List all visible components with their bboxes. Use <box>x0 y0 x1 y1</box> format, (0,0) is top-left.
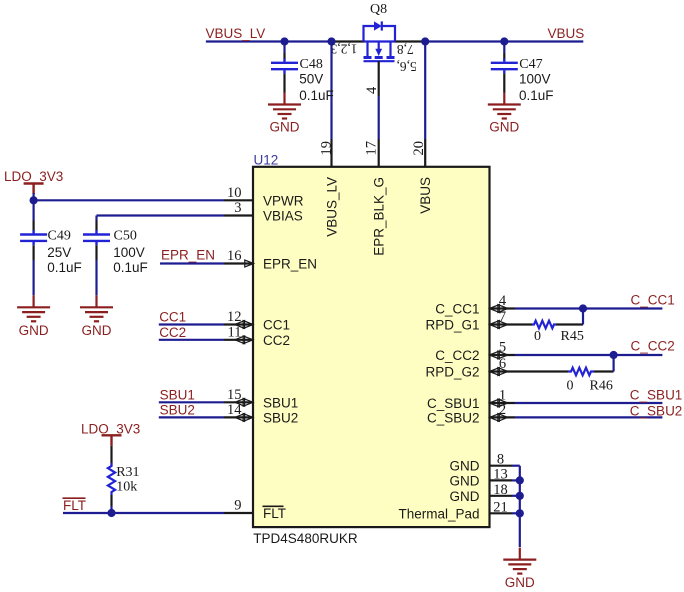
wire VPWR row <box>34 199 224 201</box>
svg-text:8: 8 <box>497 452 504 468</box>
svg-text:VBUS: VBUS <box>418 177 433 214</box>
node junction C47 tap <box>500 37 508 45</box>
power LDO_3V3 top-left <box>24 184 44 195</box>
pin 21 stub GND <box>490 512 513 514</box>
svg-text:15: 15 <box>227 387 242 403</box>
svg-text:GND: GND <box>489 120 519 135</box>
ground GND under C47 <box>488 93 521 119</box>
svg-text:12: 12 <box>227 309 242 325</box>
svg-text:CC2: CC2 <box>159 325 186 340</box>
svg-text:11: 11 <box>228 324 242 340</box>
svg-text:16: 16 <box>227 248 242 264</box>
pin 20 stub VBUS <box>424 139 426 167</box>
pin 14 stub SBU2 <box>224 416 253 418</box>
ground GND under C49 <box>17 295 50 321</box>
wire SBU1 <box>159 401 224 403</box>
svg-text:EPR_BLK_G: EPR_BLK_G <box>372 177 387 256</box>
C49 top pin <box>32 221 34 231</box>
svg-text:C_CC2: C_CC2 <box>435 348 479 363</box>
wire EPR_EN <box>160 262 224 264</box>
svg-text:CC2: CC2 <box>263 333 290 348</box>
pin 10 stub VPWR <box>224 199 253 201</box>
pin 5 stub C_CC2 <box>490 354 516 356</box>
svg-text:C50: C50 <box>114 229 137 244</box>
R45 right lead <box>556 323 583 325</box>
svg-text:CC1: CC1 <box>159 309 186 324</box>
svg-text:0.1uF: 0.1uF <box>519 88 554 103</box>
node junction pin18 <box>516 492 524 500</box>
pin 11 stub CC2 <box>224 339 253 341</box>
pin 17 stub EPR_BLK_G <box>378 139 380 167</box>
R31 bottom pin <box>110 495 112 506</box>
ground GND under C48 <box>268 93 301 119</box>
pin 1 stub C_SBU1 <box>490 402 516 404</box>
node junction FLT <box>107 509 115 517</box>
pin 19 stub VBUS_LV <box>330 139 332 167</box>
R31 top pin <box>110 446 112 466</box>
svg-text:17: 17 <box>364 141 380 156</box>
svg-text:C47: C47 <box>519 57 542 72</box>
C49 bottom pin <box>32 245 34 260</box>
svg-text:GND: GND <box>270 120 300 135</box>
svg-text:CC1: CC1 <box>263 318 290 333</box>
pin 18 stub GND <box>490 495 513 497</box>
svg-text:Thermal_Pad: Thermal_Pad <box>398 506 479 521</box>
wire VBIAS row <box>97 214 225 216</box>
svg-text:GND: GND <box>505 575 535 590</box>
svg-text:C_SBU2: C_SBU2 <box>630 403 683 418</box>
wire Q8 pin 1,2,3 stub <box>332 40 365 42</box>
svg-text:19: 19 <box>318 141 334 156</box>
svg-text:10k: 10k <box>116 480 137 495</box>
svg-text:10: 10 <box>227 185 242 201</box>
svg-text:C_CC1: C_CC1 <box>631 292 675 307</box>
svg-text:VBUS_LV: VBUS_LV <box>325 177 340 237</box>
svg-text:0.1uF: 0.1uF <box>299 88 334 103</box>
node junction pin13 <box>516 476 524 484</box>
svg-text:C_SBU1: C_SBU1 <box>630 387 683 402</box>
svg-text:4: 4 <box>499 293 507 309</box>
transistor Q8 dual MOSFET symbol <box>364 21 396 61</box>
svg-text:C49: C49 <box>48 229 71 244</box>
svg-text:VPWR: VPWR <box>263 193 304 208</box>
ground GND bottom <box>503 548 536 574</box>
node junction R46/C_CC2 <box>610 351 618 359</box>
svg-text:GND: GND <box>450 473 480 488</box>
svg-text:RPD_G1: RPD_G1 <box>425 318 479 333</box>
wire C_CC1 <box>515 307 662 309</box>
svg-text:SBU1: SBU1 <box>160 387 195 402</box>
svg-text:C_SBU2: C_SBU2 <box>427 410 480 425</box>
svg-text:C_CC1: C_CC1 <box>435 302 479 317</box>
svg-text:VBUS: VBUS <box>548 26 585 41</box>
svg-text:GND: GND <box>450 459 480 474</box>
svg-text:C_SBU1: C_SBU1 <box>427 396 480 411</box>
wire CC1 <box>159 323 224 325</box>
svg-text:14: 14 <box>227 402 242 418</box>
wire R45 up to junction <box>582 309 584 325</box>
node junction C48 tap <box>280 37 288 45</box>
wire C_CC2 <box>515 354 662 356</box>
svg-text:7,8: 7,8 <box>397 42 414 57</box>
svg-text:6: 6 <box>499 356 506 372</box>
svg-text:U12: U12 <box>254 153 279 168</box>
pin 3 stub VBIAS <box>224 214 253 216</box>
wire GND bus vertical <box>519 466 521 547</box>
svg-text:100V: 100V <box>113 245 145 260</box>
svg-text:0: 0 <box>534 329 541 344</box>
svg-text:0: 0 <box>567 379 574 394</box>
node junction Q8 left / pin19 <box>327 37 335 45</box>
pin 8 stub GND <box>490 465 513 467</box>
wire pin20 drop <box>424 42 426 140</box>
capacitor C47 <box>491 58 518 73</box>
C48 bottom pin <box>283 74 285 93</box>
svg-text:3: 3 <box>234 200 241 216</box>
IC U12 TPD4S480RUKR body <box>253 167 490 527</box>
wire C50 corner <box>95 216 97 221</box>
svg-text:LDO_3V3: LDO_3V3 <box>4 169 63 184</box>
C47 top pin <box>503 53 505 59</box>
wire pin19 drop <box>330 42 332 140</box>
pin 12 stub CC1 <box>224 323 253 325</box>
R46 right lead <box>594 370 614 372</box>
svg-text:FLT: FLT <box>263 506 286 521</box>
svg-text:1,2,3: 1,2,3 <box>330 42 357 57</box>
C50 bottom pin <box>95 245 97 260</box>
svg-text:Q8: Q8 <box>370 2 387 17</box>
svg-text:GND: GND <box>82 323 112 338</box>
pin 16 stub EPR_EN <box>224 262 253 264</box>
node junction LDO_3V3 <box>29 196 37 204</box>
svg-text:5: 5 <box>499 340 506 356</box>
wire LDO junction down to C49 <box>32 200 34 220</box>
node junction Q8 right / pin20 <box>421 37 429 45</box>
svg-text:FLT: FLT <box>63 498 86 513</box>
C47 bottom pin <box>503 74 505 93</box>
svg-text:TPD4S480RUKR: TPD4S480RUKR <box>253 531 358 546</box>
svg-text:GND: GND <box>450 489 480 504</box>
svg-text:5,6,: 5,6, <box>397 59 417 74</box>
svg-text:C_CC2: C_CC2 <box>631 339 675 354</box>
svg-text:C48: C48 <box>300 57 323 72</box>
wire C_SBU1 <box>515 402 662 404</box>
pin 6 stub RPD_G2 <box>490 370 569 372</box>
wire R46 up to junction <box>612 355 614 372</box>
svg-text:25V: 25V <box>47 245 71 260</box>
svg-text:R45: R45 <box>561 329 584 344</box>
svg-text:20: 20 <box>411 141 427 156</box>
capacitor C50 <box>83 230 110 245</box>
svg-text:R46: R46 <box>590 379 613 394</box>
pin 15 stub SBU1 <box>224 401 253 403</box>
svg-text:SBU2: SBU2 <box>263 410 298 425</box>
svg-text:EPR_EN: EPR_EN <box>263 257 317 272</box>
node junction R45/C_CC1 <box>579 304 587 312</box>
wire C47 top <box>503 42 505 54</box>
svg-text:18: 18 <box>493 482 508 498</box>
pin 7 stub RPD_G1 <box>490 323 533 325</box>
wire Q8 gate black segment <box>378 61 380 96</box>
svg-text:21: 21 <box>493 499 508 515</box>
wire VBUS rail right segment <box>425 40 583 42</box>
ground GND under C50 <box>80 295 113 321</box>
svg-text:0.1uF: 0.1uF <box>47 260 82 275</box>
svg-text:VBIAS: VBIAS <box>263 209 303 224</box>
svg-text:2: 2 <box>499 402 506 418</box>
capacitor C49 <box>20 230 47 245</box>
svg-text:EPR_EN: EPR_EN <box>161 248 215 263</box>
pin 13 stub GND <box>490 479 513 481</box>
svg-text:9: 9 <box>234 498 241 514</box>
node junction pin21 <box>516 509 524 517</box>
resistor R45 <box>532 321 556 329</box>
resistor R46 <box>568 368 594 376</box>
svg-text:VBUS_LV: VBUS_LV <box>206 26 266 41</box>
capacitor C48 <box>271 58 298 73</box>
svg-text:100V: 100V <box>519 72 551 87</box>
wire LDO to junction <box>32 193 34 200</box>
svg-text:GND: GND <box>19 323 49 338</box>
wire C50 to ground <box>95 260 97 295</box>
svg-text:SBU1: SBU1 <box>263 395 298 410</box>
pin 4 stub C_CC1 <box>490 307 516 309</box>
wire C48 top <box>283 42 285 54</box>
wire Q8 gate to pin 17 <box>378 96 380 139</box>
wire CC2 <box>159 339 224 341</box>
C50 top pin <box>95 221 97 231</box>
svg-text:50V: 50V <box>299 72 323 87</box>
svg-text:LDO_3V3: LDO_3V3 <box>81 422 140 437</box>
wire FLT row <box>63 512 224 514</box>
wire SBU2 <box>159 416 224 418</box>
pin 2 stub C_SBU2 <box>490 416 516 418</box>
svg-text:7: 7 <box>499 309 506 325</box>
wire R31 to FLT node <box>110 506 112 513</box>
svg-text:SBU2: SBU2 <box>160 403 195 418</box>
svg-text:RPD_G2: RPD_G2 <box>425 365 479 380</box>
svg-text:13: 13 <box>493 466 508 482</box>
wire C49 to ground <box>32 260 34 295</box>
resistor R31 <box>108 463 115 495</box>
svg-text:0.1uF: 0.1uF <box>113 260 148 275</box>
wire C_SBU2 <box>515 416 662 418</box>
C48 top pin <box>283 53 285 59</box>
wire Q8 pin 7,8 stub <box>395 40 426 42</box>
svg-text:R31: R31 <box>116 465 139 480</box>
power LDO_3V3 at R31 <box>102 435 122 446</box>
wire VBUS_LV rail left segment <box>206 40 332 42</box>
pin 9 stub FLT <box>224 512 253 514</box>
